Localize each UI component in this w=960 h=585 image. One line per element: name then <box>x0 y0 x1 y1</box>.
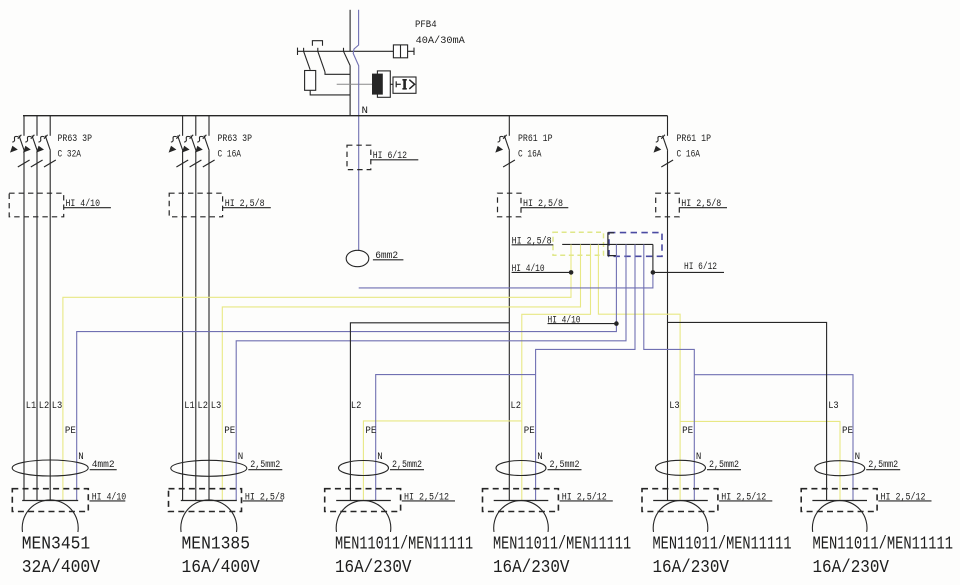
svg-text:HI 2,5/12: HI 2,5/12 <box>721 491 766 503</box>
svg-text:L2: L2 <box>39 401 50 412</box>
svg-text:PR61 1P: PR61 1P <box>518 134 553 145</box>
svg-text:PE: PE <box>842 426 853 437</box>
svg-text:MEN11011/MEN11111: MEN11011/MEN11111 <box>335 535 473 555</box>
svg-text:L1: L1 <box>184 401 195 412</box>
svg-text:PE: PE <box>682 426 693 437</box>
svg-text:L2: L2 <box>351 401 362 412</box>
svg-text:L2: L2 <box>198 401 209 412</box>
svg-text:C 16A: C 16A <box>518 150 542 161</box>
svg-text:L3: L3 <box>52 401 63 412</box>
svg-text:N: N <box>855 452 861 463</box>
svg-text:N: N <box>537 452 543 463</box>
svg-text:MEN3451: MEN3451 <box>22 535 91 555</box>
svg-text:HI 4/10: HI 4/10 <box>512 263 545 275</box>
svg-text:HI 2,5/12: HI 2,5/12 <box>404 491 449 503</box>
svg-text:PR63 3P: PR63 3P <box>58 134 93 145</box>
svg-text:N: N <box>696 452 702 463</box>
svg-text:N: N <box>78 452 84 463</box>
svg-text:HI 4/10: HI 4/10 <box>92 491 127 503</box>
svg-text:HI 2,5/12: HI 2,5/12 <box>881 491 926 503</box>
svg-text:16A/230V: 16A/230V <box>813 558 890 578</box>
svg-text:16A/230V: 16A/230V <box>653 558 730 578</box>
svg-text:PE: PE <box>65 426 76 437</box>
svg-text:MEN11011/MEN11111: MEN11011/MEN11111 <box>813 535 954 555</box>
svg-text:PE: PE <box>524 426 535 437</box>
svg-text:16A/230V: 16A/230V <box>493 558 570 578</box>
svg-text:HI 2,5/12: HI 2,5/12 <box>562 491 607 503</box>
svg-text:PE: PE <box>224 426 235 437</box>
svg-text:C 16A: C 16A <box>218 150 242 161</box>
svg-text:16A/400V: 16A/400V <box>182 558 260 578</box>
svg-text:N: N <box>377 452 383 463</box>
svg-text:40A/30mA: 40A/30mA <box>416 35 465 47</box>
svg-text:HI 6/12: HI 6/12 <box>684 261 717 273</box>
svg-text:MEN11011/MEN11111: MEN11011/MEN11111 <box>493 535 631 555</box>
svg-text:PFB4: PFB4 <box>415 20 437 31</box>
svg-text:L3: L3 <box>828 401 839 412</box>
svg-text:MEN11011/MEN11111: MEN11011/MEN11111 <box>653 535 792 555</box>
svg-text:L2: L2 <box>511 401 522 412</box>
svg-text:L3: L3 <box>211 401 222 412</box>
svg-text:C 32A: C 32A <box>58 150 82 161</box>
svg-text:PE: PE <box>365 426 376 437</box>
svg-text:PR61 1P: PR61 1P <box>677 134 712 145</box>
svg-text:L3: L3 <box>669 401 680 412</box>
svg-text:32A/400V: 32A/400V <box>22 558 100 578</box>
svg-text:HI 2,5/8: HI 2,5/8 <box>245 491 285 503</box>
svg-text:MEN1385: MEN1385 <box>182 535 251 555</box>
svg-text:C 16A: C 16A <box>677 150 701 161</box>
svg-text:N: N <box>238 452 244 463</box>
svg-text:HI 4/10: HI 4/10 <box>548 314 581 326</box>
svg-text:PR63 3P: PR63 3P <box>218 134 253 145</box>
svg-text:L1: L1 <box>26 401 37 412</box>
svg-text:HI 2,5/8: HI 2,5/8 <box>512 236 552 248</box>
svg-text:6mm2: 6mm2 <box>375 251 398 262</box>
svg-text:16A/230V: 16A/230V <box>335 558 412 578</box>
